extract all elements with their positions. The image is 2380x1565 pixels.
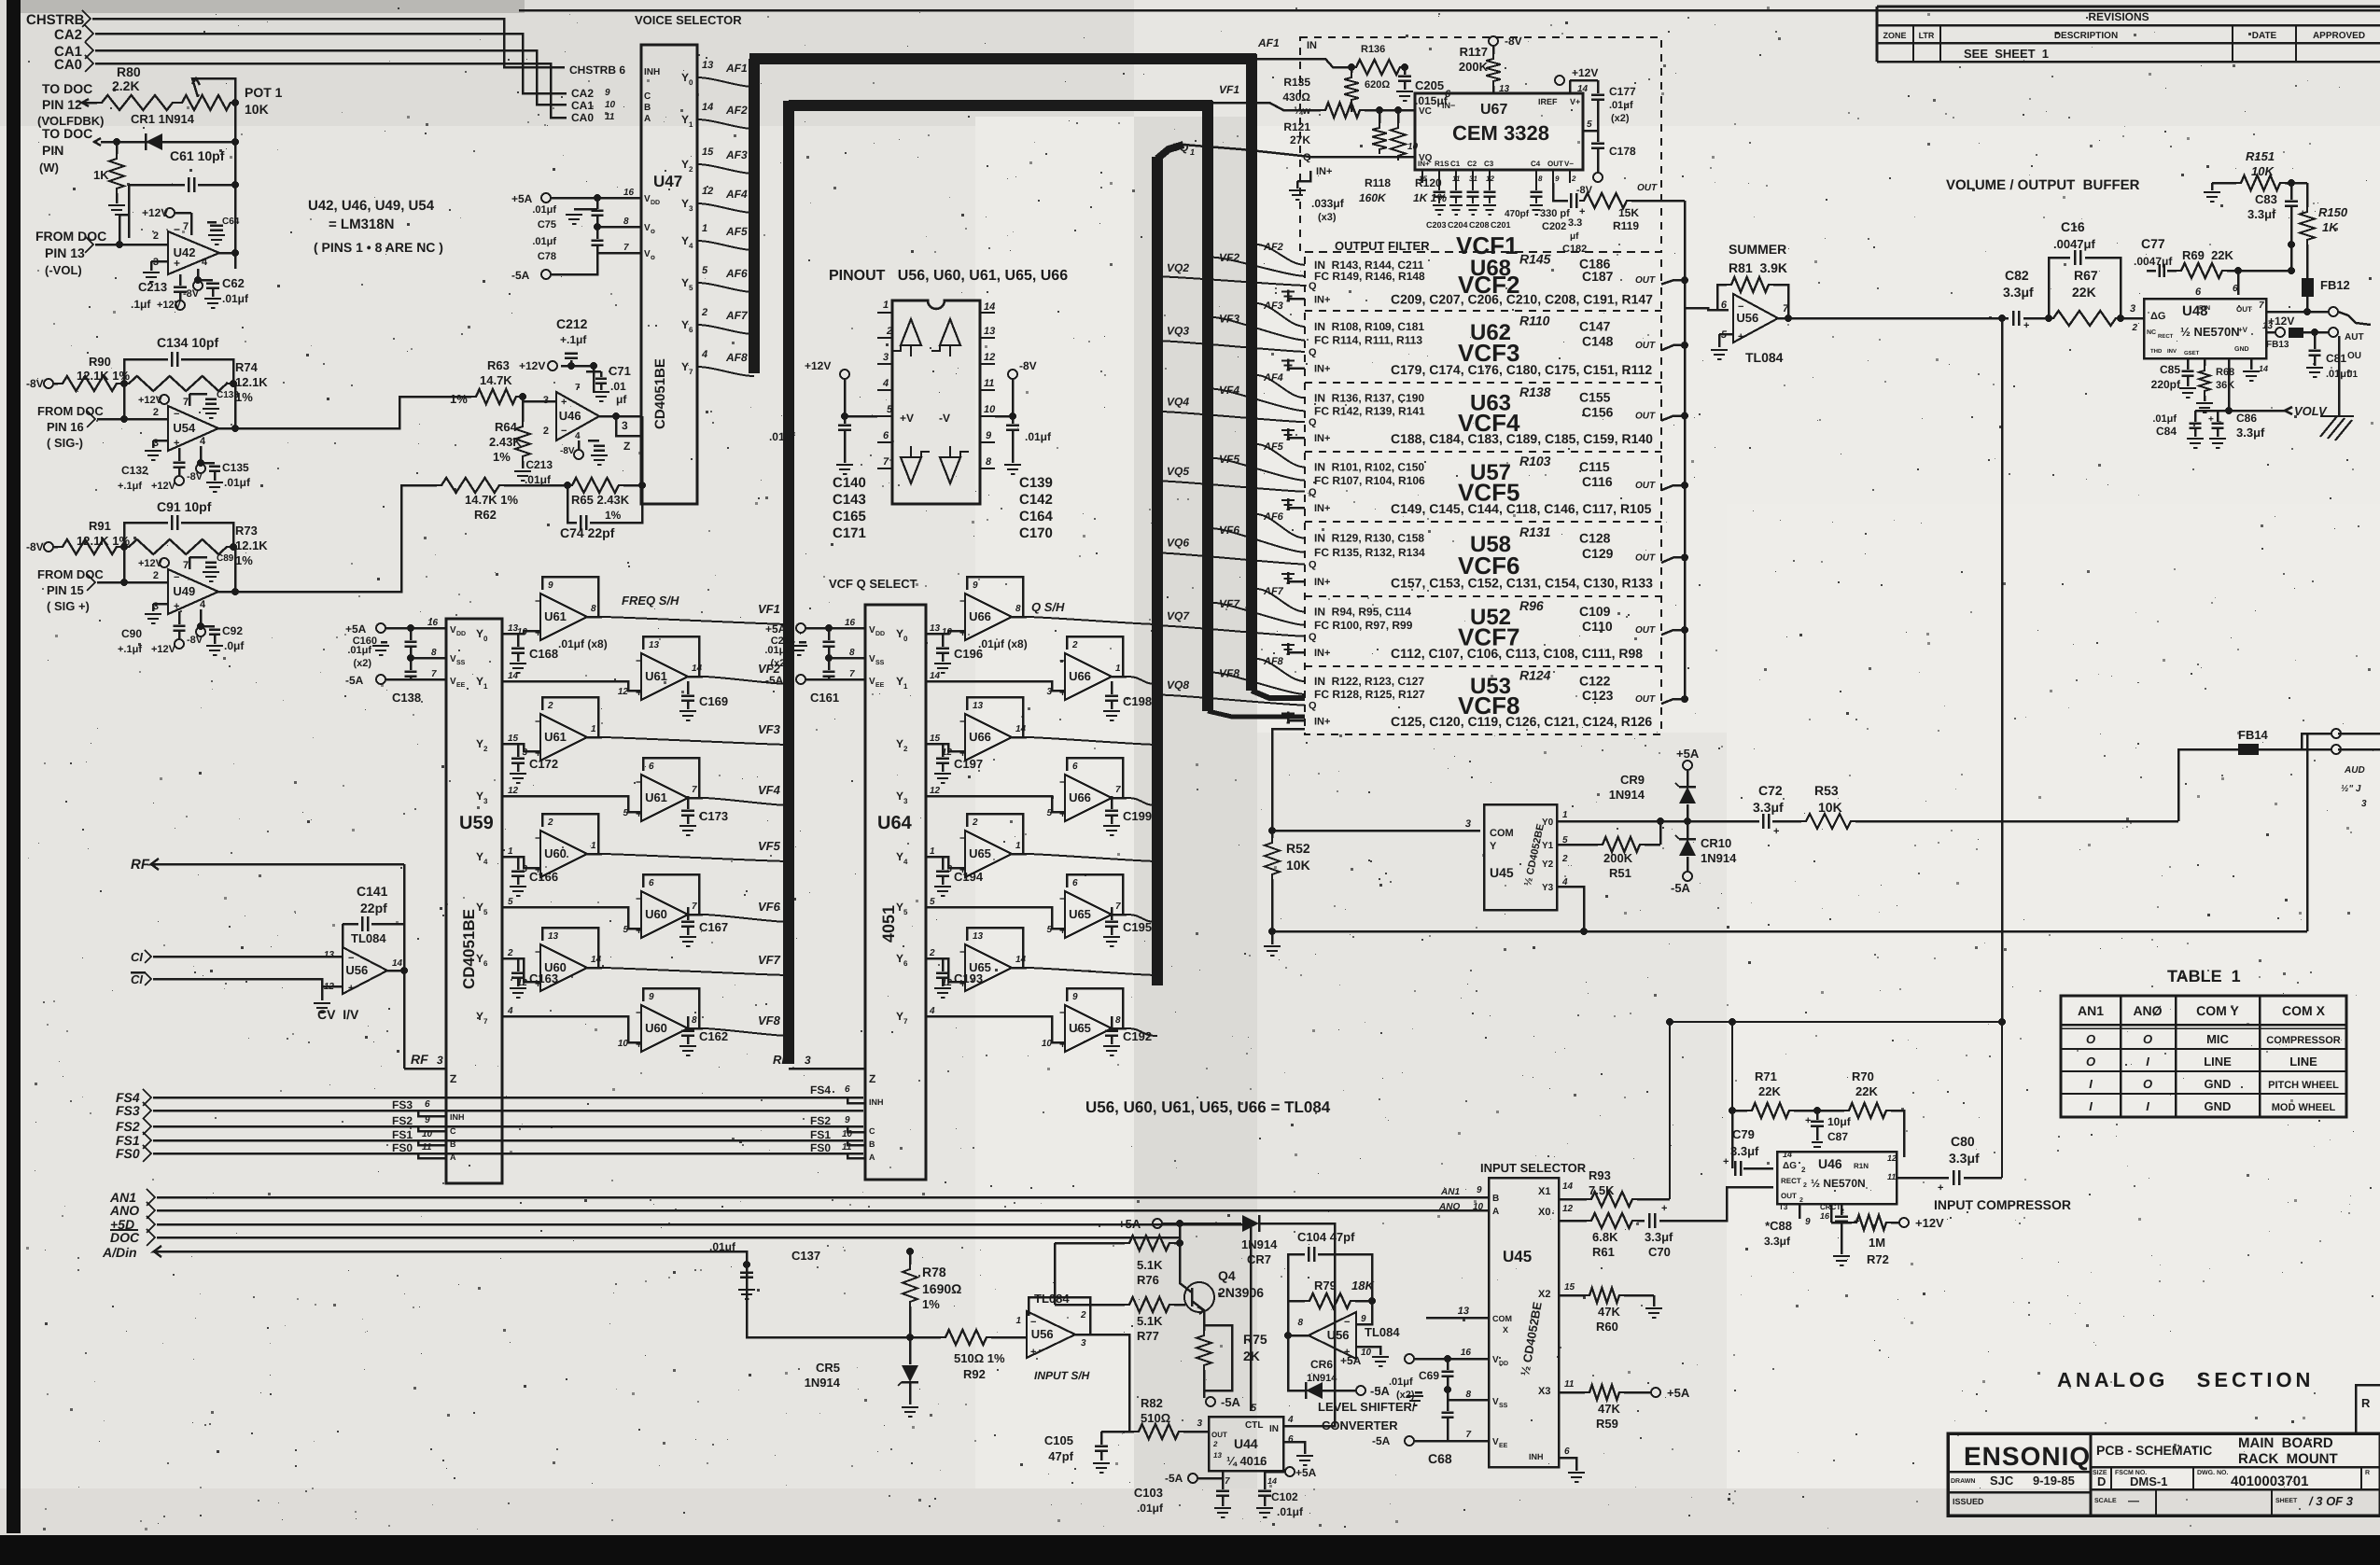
svg-text:.01μf: .01μf	[1389, 1376, 1413, 1388]
svg-text:SS: SS	[456, 660, 466, 666]
svg-text:U60: U60	[645, 907, 667, 921]
svg-text:¼ 4016: ¼ 4016	[1226, 1454, 1267, 1468]
ground U48 GND pin14	[2250, 358, 2253, 370]
svg-text:13: 13	[548, 931, 559, 942]
svg-text:5: 5	[1587, 119, 1592, 130]
svg-text:R124: R124	[1519, 668, 1551, 683]
svg-text:10K: 10K	[1818, 800, 1842, 815]
capacitor C193	[942, 958, 945, 971]
svg-text:4: 4	[575, 431, 581, 441]
svg-text:2: 2	[1799, 1197, 1803, 1204]
capacitor C198	[1111, 681, 1113, 694]
svg-text:C213: C213	[525, 458, 553, 471]
svg-text:FS3: FS3	[116, 1103, 140, 1118]
IC U59 CD4051BE	[446, 619, 502, 1183]
svg-text:VQ3: VQ3	[1167, 324, 1189, 337]
svg-text:−: −	[1059, 654, 1066, 667]
svg-text:FC R114, R111, R113: FC R114, R111, R113	[1314, 334, 1422, 347]
svg-text:A: A	[1492, 1207, 1499, 1217]
svg-text:+: +	[1059, 686, 1066, 699]
op-amp U61 channel VF2	[643, 636, 699, 677]
svg-text:R79: R79	[1314, 1279, 1337, 1293]
svg-text:16: 16	[845, 618, 856, 628]
svg-text:C193: C193	[954, 971, 983, 985]
svg-text:6: 6	[1564, 1446, 1570, 1457]
svg-text:Y: Y	[476, 737, 483, 750]
svg-text:.01μf: .01μf	[1277, 1505, 1304, 1518]
svg-text:U66: U66	[1069, 669, 1091, 683]
bus thick VF horizontal	[789, 100, 1212, 111]
svg-text:U54: U54	[173, 421, 196, 435]
wire U42 input feedback	[119, 215, 129, 245]
svg-text:5: 5	[887, 404, 893, 415]
svg-text:-8V: -8V	[1019, 359, 1037, 372]
svg-text:+5A: +5A	[1295, 1466, 1317, 1479]
IC U47 CD4051BE	[641, 45, 697, 504]
svg-text:AUD: AUD	[2344, 765, 2365, 776]
svg-text:22K: 22K	[2072, 285, 2096, 300]
svg-text:Q: Q	[1309, 487, 1317, 498]
svg-text:C135: C135	[222, 461, 249, 474]
svg-text:CD4051BE: CD4051BE	[460, 909, 478, 989]
svg-text:6: 6	[425, 1099, 430, 1110]
svg-text:+: +	[1059, 1038, 1066, 1051]
svg-text:IN+: IN+	[1314, 716, 1330, 727]
svg-text:11: 11	[1887, 1172, 1896, 1181]
svg-text:TL084: TL084	[1745, 350, 1784, 365]
svg-text:510Ω 1%: 510Ω 1%	[954, 1351, 1005, 1365]
wire U54 output to R63	[218, 427, 235, 430]
svg-text:R92: R92	[963, 1367, 986, 1381]
svg-text:( PINS 1 • 8 ARE NC ): ( PINS 1 • 8 ARE NC )	[314, 240, 443, 255]
svg-text:2: 2	[483, 745, 488, 753]
title block scale sheet row	[2155, 1489, 2157, 1516]
capacitor C162	[687, 1016, 690, 1029]
svg-text:C83: C83	[2255, 192, 2277, 206]
svg-text:1: 1	[1015, 841, 1021, 851]
svg-text:R75: R75	[1243, 1332, 1267, 1347]
svg-text:CEM 3328: CEM 3328	[1452, 121, 1549, 145]
svg-text:( SIG +): ( SIG +)	[47, 599, 90, 613]
svg-text:C204: C204	[1448, 220, 1468, 230]
capacitor C194	[942, 857, 945, 870]
capacitor C192	[1111, 1016, 1113, 1029]
svg-text:C203: C203	[1426, 220, 1447, 230]
svg-text:4: 4	[689, 242, 693, 250]
svg-text:R118: R118	[1365, 176, 1391, 189]
svg-text:Q: Q	[1309, 560, 1317, 571]
svg-text:R61: R61	[1592, 1245, 1615, 1259]
wire junction down to C80	[2001, 1022, 2003, 1178]
dashed outer box VCF2-VCF8 rows	[1305, 252, 1661, 734]
svg-text:CHSTRB 6: CHSTRB 6	[569, 63, 625, 77]
svg-text:3: 3	[1081, 1338, 1086, 1348]
ground at R52	[1271, 931, 1274, 944]
svg-text:9: 9	[986, 430, 992, 441]
svg-text:U59: U59	[459, 813, 494, 833]
svg-text:2: 2	[547, 701, 553, 711]
wire U46c pin11 to C80	[1897, 1177, 1949, 1180]
svg-text:VOICE SELECTOR: VOICE SELECTOR	[635, 13, 742, 27]
pinout pin stubs and numbers	[877, 312, 892, 314]
svg-text:14: 14	[2259, 364, 2268, 373]
svg-text:−: −	[1738, 301, 1743, 313]
svg-text:7: 7	[2259, 300, 2264, 311]
svg-text:9: 9	[649, 992, 654, 1002]
svg-text:C139: C139	[1019, 475, 1053, 491]
svg-text:8: 8	[849, 648, 855, 658]
svg-text:C71: C71	[609, 364, 631, 378]
svg-text:AF8: AF8	[725, 351, 748, 364]
svg-text:3.3μf: 3.3μf	[2003, 285, 2034, 300]
svg-text:3: 3	[2130, 303, 2135, 314]
svg-text:14: 14	[1783, 1150, 1792, 1159]
U59 power pins	[376, 623, 385, 633]
svg-text:FC R107, R104, R106: FC R107, R104, R106	[1314, 474, 1425, 487]
svg-text:IN+: IN+	[1314, 577, 1330, 588]
svg-text:13: 13	[1458, 1306, 1469, 1317]
svg-text:R69 22K: R69 22K	[2182, 248, 2234, 262]
svg-text:.01: .01	[610, 380, 626, 393]
ground for C75 C78	[574, 208, 597, 211]
svg-text:IN R122, R123, C127: IN R122, R123, C127	[1314, 675, 1424, 688]
ground under 1K	[116, 193, 119, 203]
svg-text:C74 22pf: C74 22pf	[560, 525, 615, 540]
svg-text:SS: SS	[1499, 1403, 1508, 1409]
svg-text:VF5: VF5	[758, 839, 781, 853]
svg-text:MIC: MIC	[2206, 1032, 2229, 1046]
svg-text:+: +	[636, 807, 642, 820]
svg-text:3.3μf: 3.3μf	[1645, 1230, 1673, 1244]
svg-text:PIN 12: PIN 12	[42, 97, 82, 112]
wire Y3 to bottom line	[1557, 887, 1584, 931]
svg-text:COMPRESSOR: COMPRESSOR	[2266, 1035, 2341, 1046]
svg-text:COM: COM	[1490, 828, 1514, 839]
svg-text:C172: C172	[529, 757, 558, 771]
svg-text:SEE SHEET 1: SEE SHEET 1	[1964, 47, 2049, 61]
svg-text:Q: Q	[1309, 701, 1317, 712]
svg-text:Y0: Y0	[1542, 817, 1554, 828]
wire VQ2 to bus	[1112, 676, 1127, 678]
svg-text:INPUT S/H: INPUT S/H	[1034, 1369, 1090, 1382]
svg-text:C129: C129	[1582, 546, 1614, 561]
svg-text:A: A	[869, 1153, 875, 1162]
svg-text:14: 14	[692, 664, 703, 674]
svg-text:+12V: +12V	[2268, 314, 2294, 328]
svg-text:Z: Z	[450, 1072, 456, 1085]
svg-text:AUT: AUT	[2345, 332, 2364, 342]
capacitor C196	[942, 634, 945, 647]
svg-text:13: 13	[1213, 1451, 1222, 1460]
svg-text:13: 13	[702, 60, 713, 71]
op-amp U61 channel VF3	[542, 697, 598, 737]
resistor R73 12.1K 1%	[124, 539, 231, 554]
svg-text:7: 7	[483, 1017, 488, 1026]
svg-text:R73: R73	[235, 524, 258, 538]
svg-text:OUT: OUT	[1635, 341, 1656, 351]
svg-text:IN R94, R95, C114: IN R94, R95, C114	[1314, 606, 1411, 619]
capacitor C133 .01uf	[189, 393, 207, 396]
wire VF8 to bus	[688, 1027, 703, 1030]
op-amp U65 channel VQ7	[967, 928, 1023, 968]
svg-text:+: +	[1773, 826, 1779, 837]
net VOLV	[2229, 410, 2285, 412]
svg-text:SCALE: SCALE	[2094, 1498, 2117, 1504]
svg-text:C188, C184, C183, C189, C185,: C188, C184, C183, C189, C185, C159, R140	[1391, 431, 1653, 446]
svg-text:Y: Y	[1490, 841, 1497, 852]
svg-text:CR6: CR6	[1310, 1358, 1333, 1371]
svg-text:8: 8	[986, 456, 992, 468]
capacitor C64 .01uf at U42 pin7	[207, 221, 217, 224]
svg-text:CA2: CA2	[54, 27, 82, 43]
capacitor C199	[1111, 796, 1113, 809]
svg-text:15: 15	[508, 734, 519, 744]
IC U67 CEM 3328	[1415, 93, 1583, 170]
op-amp U65 channel VQ8	[1067, 988, 1123, 1028]
capacitor C177 .01uf	[1569, 80, 1572, 93]
svg-text:R64: R64	[495, 420, 518, 434]
svg-text:R77: R77	[1137, 1329, 1159, 1343]
svg-text:DWG. NO.: DWG. NO.	[2197, 1470, 2228, 1476]
svg-text:14: 14	[1562, 1181, 1574, 1192]
svg-text:.01μf: .01μf	[2326, 369, 2350, 380]
svg-text:o: o	[651, 227, 655, 235]
capacitor C168	[517, 634, 520, 647]
svg-text:O: O	[2143, 1032, 2152, 1046]
svg-text:OUT: OUT	[2236, 305, 2252, 314]
svg-text:AF7: AF7	[725, 309, 749, 322]
svg-text:1: 1	[1115, 664, 1121, 674]
svg-text:+: +	[561, 397, 567, 408]
svg-text:ANO: ANO	[109, 1203, 139, 1218]
op-amp U49	[168, 569, 218, 614]
svg-text:7: 7	[183, 397, 189, 408]
svg-text:C213: C213	[138, 280, 167, 294]
svg-text:IN R101, R102, C150: IN R101, R102, C150	[1314, 461, 1424, 474]
capacitor C169	[687, 681, 690, 694]
svg-text:IN+: IN+	[1314, 648, 1330, 659]
svg-text:C166: C166	[529, 870, 558, 884]
svg-text:U42, U46, U49, U54: U42, U46, U49, U54	[308, 198, 435, 214]
svg-text:+5A: +5A	[765, 622, 787, 636]
svg-text:V: V	[644, 194, 651, 204]
svg-text:+12V: +12V	[519, 359, 545, 372]
svg-text:5.1K: 5.1K	[1137, 1314, 1163, 1328]
svg-text:−: −	[535, 594, 541, 608]
svg-text:R65 2.43K: R65 2.43K	[571, 493, 630, 507]
svg-text:8: 8	[1115, 1015, 1121, 1026]
svg-text:APPROVED: APPROVED	[2313, 31, 2365, 41]
svg-text:ANO: ANO	[1438, 1202, 1460, 1212]
op-amp U61 channel VF1	[542, 577, 598, 617]
svg-text:2: 2	[1071, 640, 1078, 650]
svg-text:SS: SS	[875, 660, 885, 666]
svg-text:Y: Y	[476, 1010, 483, 1023]
svg-text:2: 2	[547, 817, 553, 828]
svg-text:4: 4	[903, 858, 908, 866]
svg-text:C61 10pf: C61 10pf	[170, 148, 225, 163]
svg-text:C64: C64	[222, 217, 240, 227]
ground at summer pin5	[1719, 333, 1733, 336]
svg-text:C16: C16	[2061, 219, 2085, 234]
svg-text:1K: 1K	[2322, 220, 2339, 234]
svg-text:I: I	[2089, 1077, 2093, 1091]
svg-text:14: 14	[984, 301, 995, 313]
svg-text:6: 6	[1072, 762, 1078, 772]
svg-text:C104 47pf: C104 47pf	[1297, 1230, 1355, 1244]
svg-text:O: O	[2143, 1077, 2152, 1091]
svg-text:9: 9	[973, 580, 978, 591]
svg-text:27K: 27K	[1290, 133, 1310, 147]
svg-text:C102: C102	[1271, 1490, 1298, 1503]
svg-text:+: +	[174, 601, 179, 612]
svg-text:−: −	[174, 572, 179, 583]
svg-text:-5A: -5A	[511, 269, 530, 282]
IC U44 quarter 4016	[1209, 1417, 1283, 1471]
svg-text:14: 14	[392, 958, 403, 969]
svg-text:4010003701: 4010003701	[2231, 1474, 2308, 1489]
svg-text:OU: OU	[2347, 351, 2361, 361]
svg-text:C170: C170	[1019, 525, 1053, 541]
svg-text:−: −	[959, 715, 966, 728]
svg-text:VQ7: VQ7	[1167, 609, 1190, 622]
svg-text:AF5: AF5	[725, 225, 748, 238]
svg-text:430Ω: 430Ω	[1282, 91, 1310, 104]
svg-text:MAIN BOARD: MAIN BOARD	[2238, 1435, 2333, 1451]
svg-text:INH: INH	[450, 1112, 465, 1122]
wire Y0 out	[1557, 820, 1660, 823]
svg-text:.01μf: .01μf	[532, 236, 556, 247]
wire VF1 to bus	[587, 616, 602, 619]
svg-text:−: −	[561, 426, 567, 437]
svg-text:CD4051BE: CD4051BE	[652, 358, 668, 429]
svg-text:OUT: OUT	[1211, 1431, 1227, 1439]
svg-text:3: 3	[805, 1054, 811, 1067]
svg-text:11: 11	[422, 1142, 432, 1153]
svg-text:C197: C197	[954, 757, 983, 771]
svg-text:7: 7	[692, 901, 697, 912]
IC U45 half CD4052BE input selector	[1489, 1178, 1559, 1467]
svg-text:GND: GND	[2205, 1099, 2232, 1113]
svg-text:VF6: VF6	[758, 900, 781, 914]
bottom return line	[1272, 930, 2307, 933]
svg-text:8: 8	[623, 217, 629, 227]
svg-text:.01μf: .01μf	[1025, 430, 1052, 443]
svg-text:OUT: OUT	[1635, 275, 1656, 286]
svg-text:3: 3	[437, 1054, 443, 1067]
svg-text:AF1: AF1	[1257, 36, 1280, 49]
svg-text:+5A: +5A	[1118, 1217, 1141, 1231]
svg-text:X3: X3	[1538, 1386, 1550, 1397]
svg-text:V: V	[869, 654, 875, 664]
svg-text:14.7K: 14.7K	[480, 373, 512, 387]
wire node vertical	[234, 103, 237, 269]
svg-text:D: D	[2097, 1474, 2106, 1488]
svg-text:-5A: -5A	[1370, 1384, 1391, 1398]
svg-text:PIN 15: PIN 15	[47, 583, 84, 597]
svg-text:U64: U64	[877, 813, 913, 833]
IC U64 4051	[865, 605, 926, 1180]
svg-text:-5A: -5A	[1165, 1472, 1183, 1485]
svg-text:9: 9	[1072, 992, 1078, 1002]
svg-text:3.3: 3.3	[1568, 217, 1582, 229]
svg-text:C195: C195	[1123, 920, 1152, 934]
svg-text:9: 9	[1555, 175, 1560, 183]
svg-text:TABLE 1: TABLE 1	[2167, 967, 2241, 985]
svg-text:Q S/H: Q S/H	[1031, 600, 1065, 614]
svg-text:+: +	[535, 626, 541, 639]
svg-text:R117: R117	[1460, 45, 1488, 59]
svg-text:14: 14	[1577, 84, 1589, 94]
svg-text:1: 1	[1190, 147, 1195, 157]
svg-text:1N914: 1N914	[805, 1376, 841, 1390]
svg-text:U60: U60	[645, 1021, 667, 1035]
svg-text:Q: Q	[1303, 152, 1311, 163]
svg-text:IN+: IN+	[1314, 503, 1330, 514]
svg-text:5: 5	[903, 908, 908, 916]
svg-text:= LM318N: = LM318N	[329, 217, 394, 232]
wire VQ1 to bus	[1012, 616, 1027, 619]
svg-text:9: 9	[605, 88, 610, 98]
wire summer vertical to input selector	[2001, 318, 2004, 1022]
svg-text:C81: C81	[2326, 352, 2346, 365]
svg-text:1: 1	[591, 724, 596, 734]
svg-text:VF7: VF7	[758, 953, 781, 967]
svg-text:C137: C137	[791, 1249, 820, 1263]
sheet top border line	[519, 9, 2380, 12]
svg-text:15: 15	[930, 734, 941, 744]
svg-text:VF8: VF8	[758, 1013, 781, 1027]
svg-text:12: 12	[984, 352, 995, 363]
svg-text:AF1: AF1	[725, 62, 748, 75]
bus thick VF left vertical	[783, 101, 794, 1064]
svg-text:6: 6	[689, 326, 693, 334]
svg-text:15K: 15K	[1618, 206, 1639, 219]
svg-text:C208: C208	[1469, 220, 1490, 230]
svg-text:FB13: FB13	[2266, 340, 2289, 350]
svg-text:7: 7	[183, 560, 189, 571]
svg-text:C142: C142	[1019, 492, 1053, 508]
svg-text:+: +	[2023, 320, 2029, 331]
svg-text:13: 13	[984, 326, 995, 337]
op-amp U66 channel VQ2	[1067, 636, 1123, 677]
svg-text:.01μf: .01μf	[1609, 100, 1633, 111]
svg-text:C75: C75	[538, 219, 556, 231]
svg-text:14: 14	[1267, 1476, 1277, 1486]
svg-text:R82: R82	[1141, 1396, 1163, 1410]
svg-text:C187: C187	[1582, 269, 1614, 284]
svg-text:C2: C2	[1467, 160, 1477, 168]
svg-text:1M: 1M	[1869, 1236, 1885, 1250]
svg-text:-5A: -5A	[1372, 1434, 1391, 1447]
svg-text:7: 7	[1225, 1476, 1230, 1487]
svg-text:C147: C147	[1579, 319, 1611, 334]
capacitor C195	[1111, 907, 1113, 920]
IC U46 half NE570N compressor	[1777, 1152, 1897, 1204]
resistor 1K vertical	[116, 142, 119, 154]
svg-text:C173: C173	[699, 809, 728, 823]
svg-text:X1: X1	[1538, 1186, 1550, 1197]
svg-text:−: −	[1059, 892, 1066, 905]
svg-text:13: 13	[930, 623, 941, 634]
svg-text:10: 10	[1361, 1348, 1372, 1358]
svg-text:U61: U61	[645, 669, 667, 683]
title block outer box	[1948, 1433, 2380, 1516]
svg-text:12: 12	[508, 786, 519, 796]
svg-text:-8V: -8V	[26, 540, 44, 553]
svg-text:2: 2	[2131, 323, 2137, 333]
svg-text:Y: Y	[681, 113, 689, 126]
